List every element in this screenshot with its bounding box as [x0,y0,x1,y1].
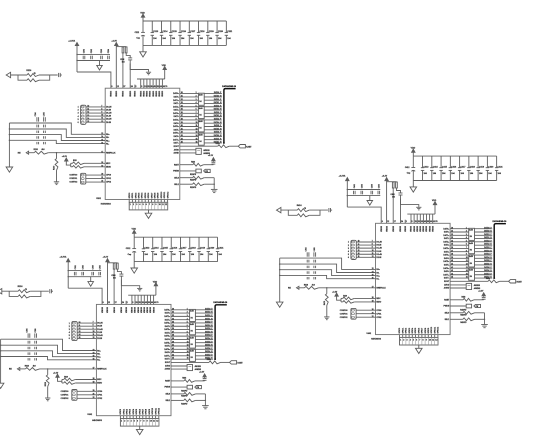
svg-text:GPIO8: GPIO8 [155,193,157,199]
svg-text:10: 10 [159,204,161,206]
svg-text:VDD33: VDD33 [141,307,143,313]
svg-text:10: 10 [187,338,189,340]
svg-text:6: 6 [137,420,138,422]
svg-text:25: 25 [418,221,420,223]
svg-text:DAT2+: DAT2+ [173,105,179,108]
svg-text:5: 5 [413,339,414,341]
svg-text:DATAHDMI-19: DATAHDMI-19 [213,301,228,304]
svg-text:DATA1_P: DATA1_P [214,98,222,101]
svg-text:35: 35 [172,325,174,327]
svg-text:DAT0+: DAT0+ [173,92,179,95]
svg-text:11: 11 [196,125,198,127]
IC U402 body [376,223,451,334]
wire data line [450,257,492,259]
svg-text:8: 8 [196,115,197,117]
svg-text:GPIO5: GPIO5 [136,409,138,415]
svg-text:AVDD: AVDD [174,148,180,151]
junction dot pulldown [205,400,206,401]
svg-text:C201: C201 [84,49,86,53]
svg-text:2: 2 [403,339,404,341]
resistor R324 (box) [187,385,192,389]
junction dots on rail [76,54,77,62]
svg-text:5: 5 [69,335,70,337]
wire connector to IC [356,250,375,252]
wire data line [171,338,213,340]
svg-text:DAT6+: DAT6+ [173,132,179,135]
capacitor C210 [212,162,216,164]
svg-text:32: 32 [451,234,453,236]
svg-text:GPIO5: GPIO5 [415,328,417,334]
wire data line [180,96,222,98]
svg-text:C216: C216 [181,31,187,33]
svg-text:7: 7 [140,420,141,422]
svg-text:37: 37 [451,250,453,252]
svg-text:GPIO9: GPIO9 [428,328,430,334]
svg-text:DATA6_P: DATA6_P [214,131,222,134]
wire data line [450,241,492,243]
wire decoupling bottom bus [77,60,110,62]
pin names misc (inside IC) [97,369,107,385]
svg-text:39: 39 [451,257,453,259]
svg-text:DATA1_N: DATA1_N [205,317,213,320]
svg-text:31: 31 [181,95,183,97]
svg-text:DATA2_P: DATA2_P [214,104,222,107]
svg-text:C217: C217 [190,31,196,33]
resistor R323 [184,380,195,383]
svg-text:R0-: R0- [376,272,379,274]
connector J202 body [81,173,86,184]
svg-text:5: 5 [134,420,135,422]
svg-text:GPIO9: GPIO9 [149,409,151,415]
svg-text:GPIO10: GPIO10 [431,327,433,334]
ground (cap bank) [131,262,138,274]
svg-text:VDD33: VDD33 [147,91,149,97]
svg-text:R1+: R1+ [106,140,109,142]
svg-text:VDD33: VDD33 [423,226,425,232]
svg-text:CONFIG2: CONFIG2 [61,398,69,400]
svg-text:16: 16 [196,142,198,144]
ground (signal, bar style) [137,288,142,291]
power flag VDD (IC) [433,202,436,214]
svg-text:DATA2_P: DATA2_P [484,239,492,242]
wire VDD pin stub [429,214,431,223]
svg-text:21: 21 [101,177,103,179]
wire config to IC [77,397,96,399]
svg-text:GPIO2: GPIO2 [135,193,137,199]
power flag +3.3VA [67,259,70,288]
svg-text:D1-IN: D1-IN [97,332,102,334]
svg-text:ROUT: ROUT [174,146,180,148]
svg-text:7: 7 [419,339,420,341]
wire config to IC [77,390,96,392]
resistor R223 [193,163,204,166]
svg-text:VDD33: VDD33 [144,91,146,97]
svg-text:+3.3V: +3.3V [478,290,484,292]
capacitor C208 [128,58,132,60]
wire decoupling top bus [347,189,380,191]
svg-text:+3.3V: +3.3V [199,371,205,373]
svg-text:+3.3V: +3.3V [382,176,388,178]
capacitor C304 (series stack) [28,333,30,360]
wire to parallel branch [18,75,27,80]
wire pulldown right [475,312,485,314]
pin names diff group (inside IC) [376,269,379,280]
resistor R318 [25,368,39,371]
wire left bus vertical [0,339,2,383]
svg-text:GPIO9: GPIO9 [158,193,160,199]
wire cap-bank top bus [143,20,226,22]
channel block A (top left) [6,12,252,218]
svg-text:GPIO1: GPIO1 [123,409,125,415]
svg-text:2: 2 [78,110,79,112]
resistor pack RP32 [190,323,196,335]
net flag ROUT [230,361,237,364]
svg-text:VDD33: VDD33 [405,226,407,232]
svg-text:35: 35 [181,109,183,111]
wire connector to IC [86,106,105,108]
svg-text:D2-IN: D2-IN [97,338,102,340]
capacitor C215 [169,21,172,45]
wire config to IC [356,316,375,318]
svg-text:GPIO11: GPIO11 [164,192,166,199]
ground (RX divider, bar style) [45,398,50,401]
svg-text:R319: R319 [45,382,47,386]
svg-text:2: 2 [135,86,136,88]
svg-text:4x50: 4x50 [190,336,194,339]
svg-text:VDD: VDD [140,12,145,14]
svg-text:CONFIG2: CONFIG2 [340,317,348,319]
svg-text:8: 8 [466,250,467,252]
svg-text:C403: C403 [370,184,373,188]
svg-text:+3.3V: +3.3V [53,372,59,374]
pin names bottom (inside IC) [399,327,439,334]
svg-text:DAT6+: DAT6+ [443,267,449,270]
svg-text:+3.3V: +3.3V [111,40,117,42]
svg-text:9: 9 [426,339,427,341]
svg-text:3: 3 [187,315,188,317]
svg-text:C418: C418 [470,165,476,168]
svg-text:C421: C421 [498,165,504,168]
svg-text:D0-IN: D0-IN [376,245,381,247]
resistor pack RP42 [469,242,475,254]
wire pull-up junction [340,298,342,302]
svg-text:D2-IN: D2-IN [106,122,111,124]
wire pulldown [450,318,463,320]
wire VDD pin stub [416,214,418,223]
connector J302 pins [72,390,75,399]
svg-text:GPIO4: GPIO4 [141,192,144,199]
svg-text:DAT4+: DAT4+ [173,119,179,122]
svg-text:H4HDMI03: H4HDMI03 [371,338,382,341]
svg-text:CFG2: CFG2 [97,398,102,400]
svg-text:3: 3 [466,234,467,236]
svg-text:55: 55 [148,302,150,304]
svg-text:11: 11 [153,420,155,422]
junction dot bus bar end [493,277,495,279]
svg-text:18: 18 [93,378,95,380]
resistor R226 [193,183,205,186]
svg-text:C220: C220 [218,31,224,33]
svg-text:36: 36 [451,247,453,249]
wire pulldown right [204,177,214,179]
svg-text:22: 22 [372,316,374,318]
wire R to pin [122,53,124,88]
resistor R325 [184,393,196,396]
svg-text:15: 15 [187,354,189,356]
wire config to IC [86,178,105,180]
svg-text:GPIO11: GPIO11 [434,327,436,334]
svg-text:12: 12 [372,256,374,258]
wire R to cap [397,188,401,193]
svg-text:R416: R416 [297,204,303,207]
svg-text:PWDN: PWDN [164,387,170,389]
svg-text:11: 11 [93,334,95,336]
svg-text:VDD33: VDD33 [393,226,395,232]
svg-text:RREF/CLK: RREF/CLK [106,152,116,154]
pin names bottom (inside IC) [129,192,169,199]
pin names data (inside IC) [443,227,449,279]
svg-text:DAT7+: DAT7+ [173,138,179,141]
resistor R405 (small vertical) [392,182,394,188]
svg-text:R1+: R1+ [97,357,100,359]
svg-text:GPIO10: GPIO10 [161,192,163,199]
capacitor C413 [421,156,424,180]
wire data line [450,267,492,269]
ground (decoupling cluster) [88,277,94,287]
svg-text:1: 1 [466,227,467,229]
svg-text:C221: C221 [227,31,233,33]
svg-text:DATA3_N: DATA3_N [205,330,213,333]
svg-text:DATA5_N: DATA5_N [214,127,222,130]
wire config to IC [356,313,375,315]
wire RSET [180,164,193,166]
ground (pulldowns, bar style) [211,189,218,192]
svg-text:+3.3VA: +3.3VA [68,39,75,42]
wire data line [450,234,492,236]
pin numbers left (IC) [372,241,374,318]
svg-text:1: 1 [69,323,70,325]
svg-text:DATA0_P: DATA0_P [205,307,213,310]
svg-text:DATA5_P: DATA5_P [205,340,213,343]
svg-text:DAT6-: DAT6- [444,270,450,273]
connector CAT3 bus bar [215,305,227,360]
wire differential line [1,339,97,350]
pin names AVDD (inside IC) [173,148,179,154]
svg-text:VDD33: VDD33 [123,91,125,97]
svg-text:R0-: R0- [97,353,100,355]
svg-text:19: 19 [101,165,103,167]
svg-text:18: 18 [101,162,103,164]
svg-text:DAT0+: DAT0+ [443,227,449,230]
pin names diff group (inside IC) [106,134,109,145]
svg-text:15: 15 [87,121,89,123]
wire cap to row [204,379,206,382]
svg-text:11: 11 [162,204,164,206]
svg-text:VDD33: VDD33 [420,226,422,232]
svg-text:DATA3_P: DATA3_P [484,246,492,249]
wire to parallel branch [9,291,18,296]
svg-text:DATA7_P: DATA7_P [214,137,222,140]
svg-text:DATA4_N: DATA4_N [484,256,492,259]
svg-text:VDD33: VDD33 [144,307,146,313]
net labels CONFIG [340,310,348,319]
resistor R424 (box) [466,304,471,308]
ground (decoupling cluster) [367,196,373,206]
resistor R219 (to ground) [55,153,58,182]
ground (pulldowns, bar style) [481,325,488,328]
wire connector to IC [86,118,105,120]
ground (cap bank) [410,181,417,193]
svg-text:GPIO5: GPIO5 [145,193,147,199]
wire data line [180,135,222,137]
svg-text:MDC: MDC [97,379,102,381]
pin numbers connector right [358,241,360,258]
resistor R317 (parallel) [18,295,30,298]
wire data line [450,264,492,266]
svg-text:32: 32 [172,315,174,317]
svg-text:AGND: AGND [173,152,179,155]
svg-text:DATA3_N: DATA3_N [484,249,492,252]
svg-text:1: 1 [348,242,349,244]
svg-text:GPIO10: GPIO10 [152,408,154,415]
svg-text:VDD: VDD [153,281,158,283]
svg-text:DATA5_N: DATA5_N [484,262,492,265]
wire RSET right [204,164,214,166]
resistor pack RP24 [198,133,204,145]
wire cap to AGND [121,276,139,288]
svg-text:+3.3VA: +3.3VA [60,256,67,259]
svg-text:D0+IN: D0+IN [376,242,382,244]
VDD pin bus [137,78,165,80]
svg-text:45: 45 [145,301,147,304]
capacitor C408 [399,193,403,195]
wire RSET right [474,299,484,301]
wire cap-bank bottom bus [134,261,217,263]
pin numbers connector left [78,107,80,124]
svg-text:15: 15 [196,138,198,140]
svg-text:12: 12 [466,263,468,265]
pin numbers bottom [130,203,167,206]
svg-text:45: 45 [424,220,426,223]
wire input row right [39,74,58,76]
pin names left group (inside IC) [376,242,382,259]
svg-text:3: 3 [136,204,137,206]
svg-text:12: 12 [101,121,103,123]
wire cap to AGND [401,195,419,207]
svg-text:16: 16 [466,277,468,279]
svg-text:RREF/CLK: RREF/CLK [97,369,107,371]
svg-text:9: 9 [101,112,102,114]
ferrite bead FB41 [466,283,471,289]
svg-text:60: 60 [160,86,162,88]
svg-text:12: 12 [117,86,119,88]
wire data line [171,325,213,327]
svg-text:VDD: VDD [132,229,137,231]
svg-text:D0+IN: D0+IN [97,323,103,325]
wire pin stub [129,64,131,89]
power flag VDD (cap bank) [412,149,415,156]
svg-text:11: 11 [432,339,434,341]
svg-text:CONFIG0: CONFIG0 [61,391,69,393]
svg-text:R320: R320 [64,376,68,378]
pin names config (inside IC) [106,175,111,184]
svg-text:60: 60 [151,302,153,304]
svg-text:R4: R4 [470,249,472,252]
svg-text:R316: R316 [18,286,24,288]
wire differential line [1,357,97,360]
capacitor C205 (series stack) [44,117,46,144]
capacitor C308 [119,274,123,276]
wire RX input [299,287,305,289]
svg-text:55: 55 [157,86,159,88]
resistor R320 [62,378,75,381]
pin numbers top [111,85,167,88]
svg-text:R226PD: R226PD [190,187,197,189]
capacitor C310 [203,379,207,381]
svg-text:DATA1_N: DATA1_N [214,101,222,104]
net flag PWDN [204,169,211,172]
svg-text:DATA4_N: DATA4_N [205,337,213,340]
svg-text:C304: C304 [25,329,28,333]
svg-text:5: 5 [196,105,197,107]
wire RX input [29,152,35,154]
svg-text:MDC: MDC [106,163,111,165]
svg-text:17: 17 [123,86,125,88]
wire data line [180,106,222,108]
wire connector to IC [356,244,375,246]
svg-text:12: 12 [87,112,89,114]
svg-text:DATA3_P: DATA3_P [205,327,213,330]
svg-text:R4: R4 [199,127,201,130]
svg-text:R223: R223 [191,161,195,163]
wire pulldown [180,183,193,185]
wire data line [450,228,492,230]
wire input row [2,290,18,292]
svg-text:11: 11 [466,260,468,262]
svg-text:4x50: 4x50 [199,120,203,123]
wire pulldown right [195,399,205,401]
wire data line [171,322,213,324]
svg-text:30: 30 [181,92,183,94]
wire R to cap [117,269,121,274]
wire AGND [450,287,466,289]
svg-text:DAT7+: DAT7+ [443,273,449,276]
junction dots left bus [279,263,280,276]
svg-text:VDD33: VDD33 [386,226,388,232]
resistor R326 [184,399,196,402]
channel block B (bottom left) [0,229,244,435]
svg-text:DATAHDMI-19: DATAHDMI-19 [222,85,237,88]
pin numbers data (right of IC) [181,92,183,143]
svg-text:2: 2 [196,95,197,97]
pin numbers bottom [121,419,158,422]
svg-text:SEL1: SEL1 [165,400,170,402]
svg-text:DAT1-: DAT1- [444,237,450,240]
resistor pack RP43 [469,255,475,267]
svg-text:VDD33: VDD33 [162,91,164,97]
svg-text:C202: C202 [91,49,93,53]
svg-text:DAT4-: DAT4- [444,257,450,260]
svg-text:R220: R220 [73,160,77,162]
wire AVDD [171,365,187,367]
svg-text:4x50: 4x50 [469,229,473,232]
net labels CONFIG [69,175,77,184]
capacitor C409 (termination) [329,208,332,212]
junction dot pulldown [484,319,485,320]
svg-text:9: 9 [196,119,197,121]
svg-text:C419: C419 [479,165,485,168]
capacitor C209 (termination) [59,73,62,77]
